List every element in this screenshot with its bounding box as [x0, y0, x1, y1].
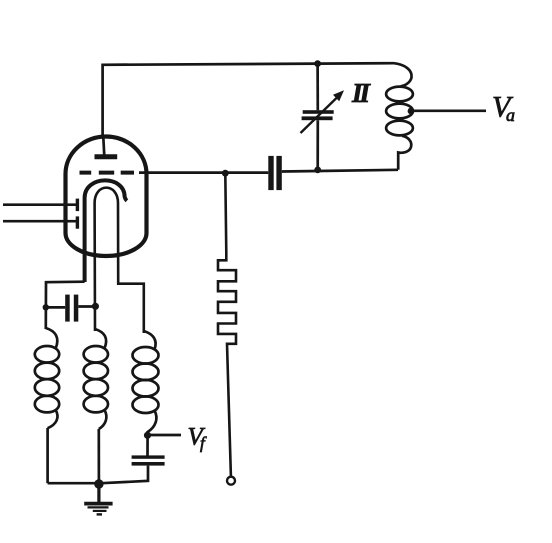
wire: L3 to Vf node — [146, 431, 149, 456]
triode U1 envelope — [66, 137, 147, 256]
node: ground junction — [94, 479, 103, 488]
wire: ground rail — [48, 482, 99, 485]
node: Vf junction — [144, 432, 151, 439]
capacitor C2 top plate — [132, 455, 165, 458]
ground symbol — [84, 484, 112, 514]
wire: C1 left lead — [46, 306, 65, 309]
wire: C1 right lead — [78, 305, 95, 308]
wire: C3 to tank bottom rail — [282, 170, 398, 172]
node: tank top junction — [314, 60, 321, 67]
node: C1-right junction — [92, 303, 99, 310]
inductor L3 (right coil) — [133, 331, 159, 432]
variable capacitor C4 top plate — [303, 110, 334, 114]
wire: L1 bottom lead — [46, 428, 49, 483]
heater terminal bar 2 — [76, 216, 79, 228]
capacitor C1 right plate — [74, 295, 79, 322]
wire: C2 bottom lead to ground rail — [99, 466, 148, 484]
node: C1-left junction — [43, 304, 49, 310]
inductor L4 (tank coil) — [386, 63, 413, 170]
grid (dashed) — [80, 171, 135, 175]
node: tank bottom junction — [314, 167, 321, 174]
wire: L2 bottom lead — [97, 429, 100, 484]
heater terminal lead 1 — [3, 203, 76, 206]
heater filament and leads — [95, 188, 144, 333]
inductor L1 (left coil) — [35, 328, 59, 428]
arrow of variable capacitor — [301, 98, 337, 133]
terminal: open circle — [227, 477, 235, 485]
wire: output to Va — [411, 109, 486, 112]
wire: Vf stub — [148, 434, 182, 437]
wire: anode top rail — [103, 63, 394, 137]
variable capacitor C4 bottom plate — [302, 116, 333, 120]
node: coil tap — [408, 108, 415, 115]
svg-text:f: f — [200, 434, 207, 453]
capacitor C2 bottom plate — [132, 462, 165, 466]
svg-text:II: II — [351, 78, 372, 108]
wire: cathode leg to left branch — [46, 282, 85, 329]
resistor R1 (meander) — [218, 174, 236, 477]
wire: variable capacitor top lead — [316, 64, 319, 111]
capacitor C1 left plate — [65, 295, 70, 322]
wire: grid lead to C3 — [139, 171, 268, 174]
anode plate bar — [95, 154, 118, 159]
capacitor C3 left plate — [268, 156, 273, 190]
inductor L2 (middle coil) — [84, 329, 108, 429]
capacitor C3 right plate — [276, 156, 281, 190]
svg-text:a: a — [506, 105, 515, 125]
heater terminal lead 2 — [3, 220, 76, 223]
wire: variable capacitor bottom lead — [316, 120, 319, 170]
node: grid/resistor junction — [222, 170, 229, 177]
heater terminal bar 1 — [76, 199, 79, 212]
cathode — [85, 180, 127, 282]
wire: plate lead inside tube — [103, 137, 104, 156]
